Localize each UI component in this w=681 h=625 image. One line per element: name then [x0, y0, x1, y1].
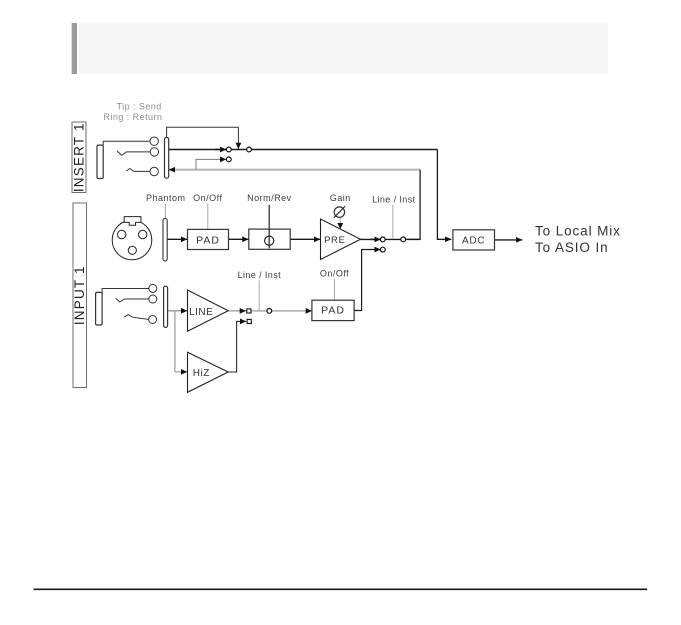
svg-text:INPUT 1: INPUT 1: [72, 265, 87, 325]
svg-text:Norm/Rev: Norm/Rev: [247, 193, 292, 203]
svg-text:To Local Mix: To Local Mix: [535, 224, 621, 239]
svg-text:Gain: Gain: [330, 193, 351, 203]
svg-text:Line / Inst: Line / Inst: [372, 195, 416, 205]
svg-text:On/Off: On/Off: [193, 193, 222, 203]
svg-text:Tip : Send: Tip : Send: [117, 102, 162, 112]
svg-text:PAD: PAD: [321, 305, 345, 317]
svg-text:Ring : Return: Ring : Return: [104, 112, 163, 122]
svg-text:INSERT 1: INSERT 1: [72, 122, 87, 192]
svg-text:On/Off: On/Off: [320, 269, 349, 279]
svg-text:PRE: PRE: [324, 235, 345, 246]
svg-text:To ASIO In: To ASIO In: [535, 240, 609, 255]
svg-text:ADC: ADC: [462, 236, 486, 247]
svg-text:HiZ: HiZ: [193, 368, 210, 379]
svg-text:Phantom: Phantom: [146, 193, 186, 203]
svg-text:Line / Inst: Line / Inst: [238, 270, 282, 280]
svg-text:PAD: PAD: [196, 234, 220, 246]
svg-text:LINE: LINE: [189, 307, 213, 318]
